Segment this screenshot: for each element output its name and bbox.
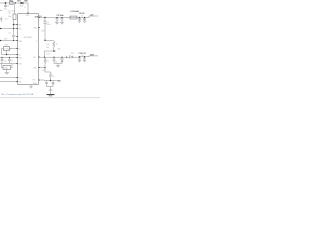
svg-text:MC34063: MC34063 [24,37,32,39]
svg-text:C8 C9: C8 C9 [79,13,84,15]
svg-text:BQ2: BQ2 [4,68,8,70]
svg-text:TXD: TXD [57,81,61,83]
svg-text:100n: 100n [4,39,8,41]
svg-text:+: + [0,9,1,11]
svg-text:C10 C11: C10 C11 [79,53,86,55]
svg-text:R5: R5 [52,76,54,78]
svg-text:10u: 10u [4,8,7,10]
svg-text:+: + [3,17,4,19]
svg-text:1k: 1k [56,44,58,46]
svg-text:C5 100n: C5 100n [57,15,65,17]
svg-text:47u: 47u [5,18,8,20]
svg-text:C1: C1 [7,6,9,8]
svg-text:X2: X2 [18,54,20,56]
svg-text:C4: C4 [55,61,57,63]
svg-text:470u: 470u [47,24,51,26]
svg-text:C9: C9 [81,15,83,17]
svg-text:Rsc: Rsc [8,16,11,18]
svg-text:OS2: OS2 [18,63,21,65]
svg-text:4148: 4148 [20,5,24,7]
svg-text:R2: R2 [47,44,49,46]
svg-text:Рис.1 Типовая схема DC-DC 5B: Рис.1 Типовая схема DC-DC 5B [1,94,34,96]
svg-text:SW: SW [41,30,44,32]
svg-text:5: 5 [36,41,37,43]
svg-text:C3: C3 [8,32,10,34]
svg-text:Z1: Z1 [52,84,54,86]
svg-text:OS1: OS1 [18,58,21,60]
svg-text:C11: C11 [81,55,84,57]
svg-text:FU1: FU1 [10,1,14,3]
svg-text:P10: P10 [18,77,21,79]
svg-text:X1: X1 [18,48,20,50]
svg-text:12: 12 [39,16,41,18]
svg-text:10k: 10k [46,47,49,49]
svg-text:7.3728M: 7.3728M [4,49,11,51]
svg-text:C7: C7 [11,61,13,63]
svg-text:R3: R3 [46,61,48,63]
svg-text:R4: R4 [43,70,45,72]
svg-text:P11: P11 [18,81,21,83]
svg-text:VD1: VD1 [17,1,21,3]
svg-text:8: 8 [25,7,26,9]
svg-text:100n: 100n [46,53,50,55]
svg-text:VD2: VD2 [71,53,75,55]
svg-text:C6: C6 [4,61,6,63]
svg-text:ZQ1: ZQ1 [5,45,9,47]
svg-text:10k: 10k [58,49,61,51]
